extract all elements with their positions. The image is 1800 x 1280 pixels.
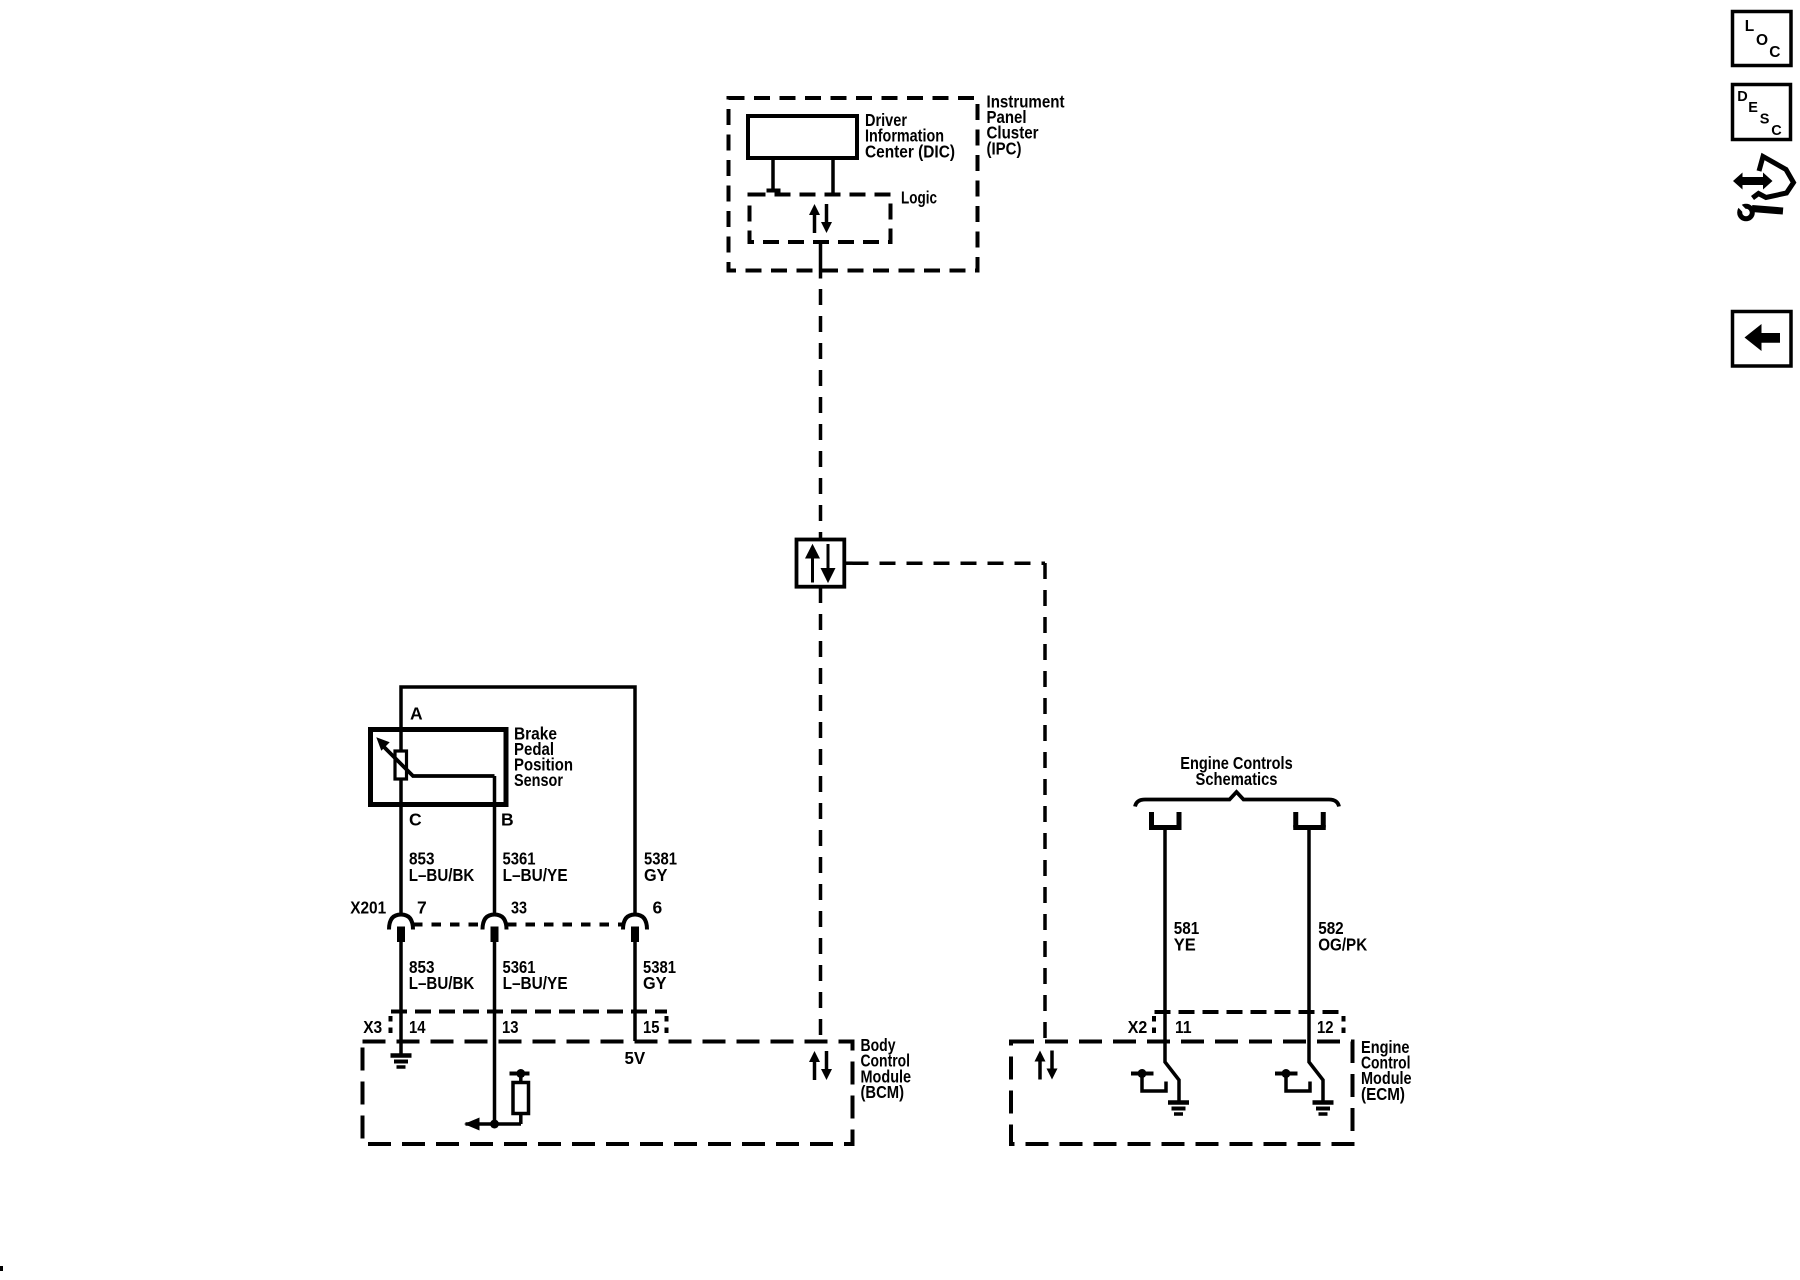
svg-text:OG/PK: OG/PK — [1318, 935, 1367, 955]
svg-text:L–BU/YE: L–BU/YE — [503, 865, 568, 885]
svg-text:7: 7 — [417, 898, 427, 918]
svg-text:C: C — [1771, 123, 1782, 139]
svg-text:(IPC): (IPC) — [987, 138, 1022, 158]
svg-text:D: D — [1737, 89, 1747, 105]
svg-text:11: 11 — [1175, 1017, 1192, 1037]
svg-text:X201: X201 — [350, 898, 386, 918]
svg-text:(ECM): (ECM) — [1361, 1084, 1405, 1104]
svg-text:Center (DIC): Center (DIC) — [865, 141, 955, 161]
svg-text:S: S — [1760, 111, 1770, 127]
svg-text:A: A — [410, 704, 423, 724]
svg-text:YE: YE — [1174, 935, 1196, 955]
svg-text:X3: X3 — [363, 1017, 382, 1037]
svg-text:Schematics: Schematics — [1196, 769, 1278, 789]
svg-text:E: E — [1748, 100, 1758, 116]
svg-text:L: L — [1745, 18, 1754, 35]
svg-text:L–BU/YE: L–BU/YE — [503, 973, 568, 993]
svg-text:O: O — [1756, 32, 1768, 49]
svg-text:(BCM): (BCM) — [861, 1082, 905, 1102]
svg-text:6: 6 — [653, 898, 663, 918]
svg-text:Logic: Logic — [901, 187, 937, 207]
svg-text:B: B — [501, 810, 514, 830]
svg-text:15: 15 — [643, 1017, 660, 1037]
svg-text:33: 33 — [511, 898, 527, 918]
svg-text:12: 12 — [1317, 1017, 1334, 1037]
svg-text:L–BU/BK: L–BU/BK — [409, 865, 475, 885]
svg-text:5V: 5V — [625, 1048, 646, 1068]
svg-text:GY: GY — [644, 865, 668, 885]
svg-text:L–BU/BK: L–BU/BK — [409, 973, 475, 993]
svg-text:C: C — [1769, 44, 1780, 61]
svg-text:X2: X2 — [1128, 1017, 1148, 1037]
svg-text:Sensor: Sensor — [514, 770, 563, 790]
svg-text:C: C — [409, 810, 422, 830]
svg-text:GY: GY — [643, 973, 667, 993]
svg-text:14: 14 — [409, 1017, 426, 1037]
svg-text:13: 13 — [502, 1017, 519, 1037]
